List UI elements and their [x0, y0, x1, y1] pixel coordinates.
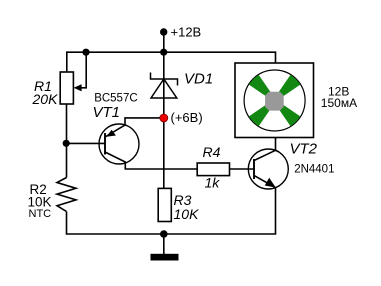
svg-text:1k: 1k — [205, 174, 221, 190]
svg-text:NTC: NTC — [29, 208, 52, 220]
svg-text:VT2: VT2 — [290, 140, 318, 157]
svg-text:VD1: VD1 — [184, 71, 213, 88]
svg-text:VT1: VT1 — [93, 104, 121, 121]
svg-text:2N4401: 2N4401 — [294, 163, 334, 175]
svg-text:+12B: +12B — [171, 25, 202, 40]
svg-text:BC557C: BC557C — [94, 92, 137, 104]
svg-text:(+6B): (+6B) — [171, 110, 203, 125]
svg-text:R4: R4 — [203, 144, 221, 160]
svg-text:20K: 20K — [32, 91, 59, 107]
svg-text:150мА: 150мА — [321, 96, 357, 110]
svg-text:10K: 10K — [174, 206, 200, 222]
